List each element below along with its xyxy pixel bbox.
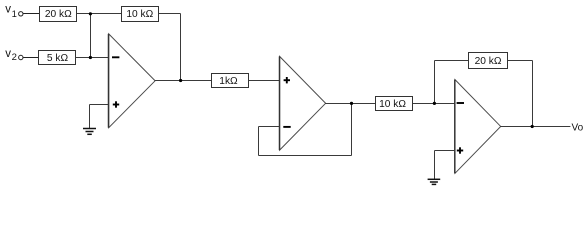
svg-text:1kΩ: 1kΩ [219, 76, 238, 87]
svg-text:5 kΩ: 5 kΩ [47, 53, 69, 64]
svg-text:v: v [5, 48, 11, 60]
svg-text:10 kΩ: 10 kΩ [126, 9, 153, 20]
svg-text:Vo: Vo [572, 122, 584, 133]
svg-text:20 kΩ: 20 kΩ [475, 56, 502, 67]
svg-text:2: 2 [12, 52, 17, 63]
svg-text:v: v [5, 4, 11, 16]
svg-text:10 kΩ: 10 kΩ [379, 99, 406, 110]
svg-text:20 kΩ: 20 kΩ [45, 9, 72, 20]
svg-text:1: 1 [12, 9, 17, 20]
